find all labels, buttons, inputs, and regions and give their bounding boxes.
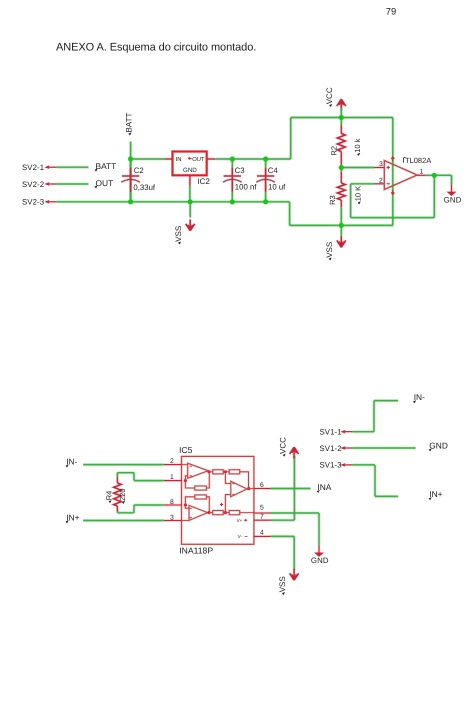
svg-text:SV1-2: SV1-2 xyxy=(320,444,342,453)
svg-text:SV2-1: SV2-1 xyxy=(22,163,44,172)
svg-text:2: 2 xyxy=(379,178,383,185)
svg-text:GND: GND xyxy=(444,196,462,205)
svg-text:R2: R2 xyxy=(329,146,338,156)
svg-text:7: 7 xyxy=(260,514,264,521)
svg-text:VSS: VSS xyxy=(325,242,334,258)
svg-text:100 nf: 100 nf xyxy=(235,183,258,192)
svg-text:GND: GND xyxy=(311,556,329,565)
svg-text:3: 3 xyxy=(379,161,383,168)
svg-text:BATT: BATT xyxy=(125,113,134,133)
svg-text:C2: C2 xyxy=(134,166,144,175)
svg-text:INA: INA xyxy=(317,482,331,492)
svg-text:INA118P: INA118P xyxy=(179,546,213,556)
svg-text:10 K: 10 K xyxy=(354,186,363,201)
svg-text:C3: C3 xyxy=(235,166,245,175)
svg-text:VSS: VSS xyxy=(174,226,183,242)
svg-text:8: 8 xyxy=(170,499,174,506)
svg-text:4: 4 xyxy=(260,530,264,537)
svg-text:10 k: 10 k xyxy=(353,138,362,152)
svg-text:IN: IN xyxy=(176,157,182,163)
svg-text:0,33uf: 0,33uf xyxy=(133,183,156,192)
svg-text:OUT: OUT xyxy=(192,156,205,163)
svg-text:79: 79 xyxy=(386,5,396,16)
svg-text:SV1-1: SV1-1 xyxy=(320,428,342,437)
svg-text:SV2-3: SV2-3 xyxy=(22,198,44,207)
svg-text:GND: GND xyxy=(183,167,197,174)
svg-text:220: 220 xyxy=(118,488,127,501)
svg-text:3: 3 xyxy=(170,514,174,521)
svg-text:6: 6 xyxy=(260,482,264,489)
svg-text:SV2-2: SV2-2 xyxy=(22,180,44,189)
svg-text:R3: R3 xyxy=(328,195,337,205)
svg-text:BATT: BATT xyxy=(96,161,117,171)
svg-text:TL082A: TL082A xyxy=(405,156,431,165)
svg-text:IC5: IC5 xyxy=(179,445,193,455)
svg-text:1: 1 xyxy=(170,474,174,481)
svg-text:VCC: VCC xyxy=(325,87,334,104)
svg-text:VCC: VCC xyxy=(279,437,288,454)
svg-text:V+: V+ xyxy=(237,518,243,523)
svg-text:10 uf: 10 uf xyxy=(268,183,286,192)
svg-text:GND: GND xyxy=(429,440,448,450)
svg-text:R4: R4 xyxy=(104,491,113,501)
svg-text:OUT: OUT xyxy=(96,178,114,188)
svg-text:VSS: VSS xyxy=(278,576,287,592)
svg-text:5: 5 xyxy=(260,504,264,511)
svg-text:ANEXO A. Esquema do circuito m: ANEXO A. Esquema do circuito montado. xyxy=(56,42,256,54)
svg-text:SV1-3: SV1-3 xyxy=(320,461,342,470)
svg-text:2: 2 xyxy=(170,458,174,465)
svg-text:C4: C4 xyxy=(268,166,279,175)
svg-text:IC2: IC2 xyxy=(197,177,210,186)
svg-text:1: 1 xyxy=(420,169,424,176)
svg-text:V-: V- xyxy=(238,534,243,539)
